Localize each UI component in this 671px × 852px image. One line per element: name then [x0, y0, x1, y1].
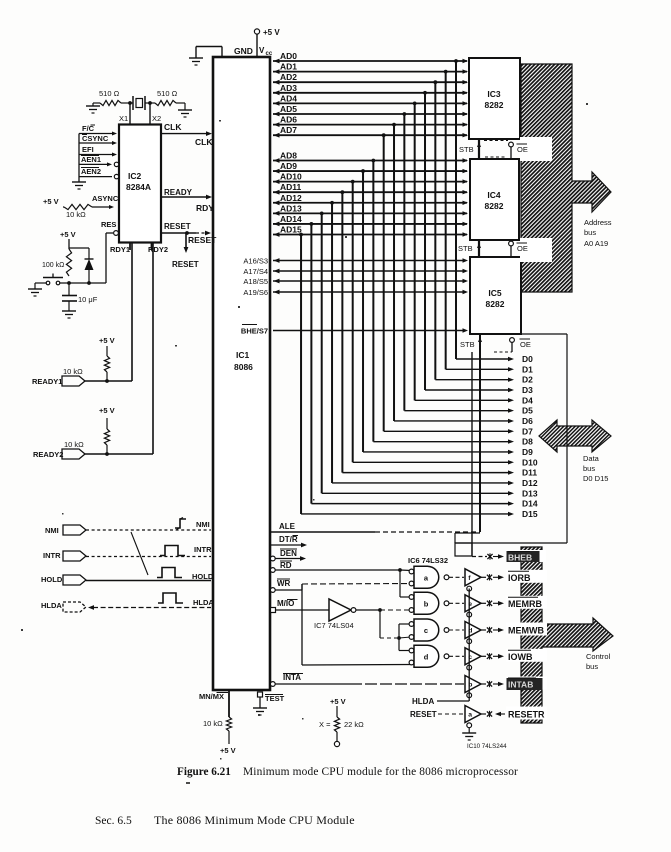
svg-text:AD11: AD11 — [280, 182, 302, 192]
waveform NMI edge — [175, 519, 186, 528]
wire D14 horizontal — [311, 503, 508, 505]
wire D12 horizontal — [332, 482, 508, 484]
wire reset junction — [58, 282, 106, 284]
ground IC2 input bus — [72, 181, 86, 183]
node AD12 junction — [330, 201, 334, 205]
svg-text:BHEB: BHEB — [508, 553, 532, 563]
wire button to ground — [35, 282, 46, 284]
svg-text:Figure 6.21: Figure 6.21 — [177, 766, 231, 778]
waveform HOLD pulse — [157, 568, 182, 578]
wire A17/S4 — [273, 270, 464, 272]
wire AD7 horizontal — [273, 134, 467, 136]
label INTAB — [506, 677, 547, 690]
label MEMWB — [506, 623, 547, 636]
pin F/C input — [79, 133, 114, 135]
svg-text:IC6 74LS32: IC6 74LS32 — [408, 556, 448, 565]
svg-text:STB: STB — [460, 340, 475, 349]
svg-text:IC2: IC2 — [128, 171, 142, 181]
svg-text:bus: bus — [583, 464, 595, 473]
svg-text:RDY1: RDY1 — [110, 245, 130, 254]
wire AD15 horizontal — [273, 233, 467, 235]
latch IC5 8282 — [470, 257, 521, 334]
svg-text:D14: D14 — [522, 499, 538, 509]
ground GND pin — [189, 57, 203, 59]
node X1 junction — [128, 101, 132, 105]
svg-text:IC10 74LS244: IC10 74LS244 — [467, 743, 507, 750]
pin CSYNC input — [79, 142, 114, 144]
svg-text:D9: D9 — [522, 447, 533, 457]
svg-text:bus: bus — [586, 662, 598, 671]
pin RD wire — [270, 568, 275, 573]
or-gate a — [409, 569, 414, 574]
svg-text:HLDA: HLDA — [193, 598, 214, 607]
cpu IC1 8086 body — [213, 57, 270, 690]
node AD10 junction — [351, 180, 355, 184]
wire AD1 horizontal — [273, 71, 467, 73]
buffer c 74LS244 — [465, 648, 481, 665]
svg-text:DEN: DEN — [280, 549, 297, 558]
wire buffer a enable to ground — [468, 728, 470, 733]
svg-text:OE: OE — [517, 244, 528, 253]
pin OE IC3 bubble — [509, 142, 514, 147]
wire AD10 vertical drop to D10 — [352, 182, 354, 463]
svg-text:10 kΩ: 10 kΩ — [203, 719, 223, 728]
svg-text:X2: X2 — [152, 114, 161, 123]
svg-text:D12: D12 — [522, 478, 538, 488]
wire dashes gap1 — [484, 140, 508, 142]
node AD14 junction — [309, 222, 313, 226]
wire X1 drop — [129, 103, 131, 124]
or-gate b — [409, 595, 414, 600]
capacitor 10uF — [62, 295, 77, 297]
node AD11 junction — [340, 190, 344, 194]
svg-text:A18/S5: A18/S5 — [243, 277, 268, 286]
svg-text:+5 V: +5 V — [263, 28, 280, 37]
svg-text:10 kΩ: 10 kΩ — [64, 440, 84, 449]
svg-text:AD13: AD13 — [280, 203, 302, 213]
svg-text:RESET: RESET — [188, 235, 217, 245]
svg-text:RESET: RESET — [172, 260, 199, 269]
crystal X1-X2 — [132, 96, 134, 110]
inverter IC7 74LS04 — [329, 599, 351, 621]
svg-text:D4: D4 — [522, 395, 533, 405]
buffer a 74LS244 — [465, 706, 481, 723]
svg-text:D2: D2 — [522, 375, 533, 385]
wire RESET branch down — [185, 233, 187, 248]
pin TEST — [258, 692, 263, 697]
svg-text:RDY2: RDY2 — [148, 245, 168, 254]
wire AD3 vertical drop to D3 — [424, 93, 426, 390]
svg-text:DT/R: DT/R — [279, 535, 298, 544]
label IOWB — [506, 649, 547, 662]
wire AD14 horizontal — [273, 223, 467, 225]
svg-text:10 kΩ: 10 kΩ — [66, 210, 86, 219]
wire AD9 vertical drop to D9 — [362, 171, 364, 452]
svg-text:AEN2: AEN2 — [81, 167, 101, 176]
label IORB — [506, 570, 547, 583]
ground capacitor — [62, 310, 76, 312]
wire D2 horizontal — [435, 379, 508, 381]
svg-text:AD7: AD7 — [280, 125, 297, 135]
svg-text:D11: D11 — [522, 468, 537, 478]
svg-text:+5 V: +5 V — [99, 336, 115, 345]
or-gate d — [409, 648, 414, 653]
svg-text:RESET: RESET — [164, 222, 191, 231]
svg-text:RES: RES — [101, 220, 116, 229]
svg-text:The 8086 Minimum Mode CPU Modu: The 8086 Minimum Mode CPU Module — [154, 813, 355, 827]
svg-text:10 kΩ: 10 kΩ — [63, 367, 83, 376]
terminal X open circle — [334, 741, 339, 746]
wire AD4 horizontal — [273, 102, 467, 104]
wire X2 drop — [149, 103, 151, 124]
wire to crystal left — [121, 102, 133, 104]
wire INTR — [86, 556, 211, 558]
wire to gate c input — [398, 624, 400, 638]
svg-text:NMI: NMI — [196, 520, 210, 529]
svg-text:AD3: AD3 — [280, 83, 297, 93]
pin enable bubble buffer b — [467, 693, 472, 698]
svg-text:IC4: IC4 — [487, 190, 501, 200]
svg-text:+5 V: +5 V — [330, 697, 346, 706]
wire A16/S3 — [273, 260, 464, 262]
svg-text:A0 A19: A0 A19 — [584, 239, 608, 248]
wire AD14 vertical drop to D14 — [310, 224, 312, 504]
svg-text:STB: STB — [458, 244, 473, 253]
wire READY1 — [85, 380, 132, 382]
svg-text:AD10: AD10 — [280, 172, 302, 182]
node RESET branch — [185, 231, 189, 235]
svg-text:RESET: RESET — [410, 710, 437, 719]
node AD3 junction — [423, 91, 427, 95]
wire STB gap1 — [478, 140, 480, 159]
wire AD2 horizontal — [273, 81, 467, 83]
wire AD5 horizontal — [273, 113, 467, 115]
svg-text:A17/S4: A17/S4 — [243, 267, 268, 276]
svg-text:AD4: AD4 — [280, 93, 297, 103]
wire enable chain vertical — [468, 589, 470, 702]
pin OE IC5 bubble — [510, 338, 515, 343]
wire D9 horizontal — [363, 451, 508, 453]
pin INTA wire — [270, 682, 275, 687]
wire RES up to IC2 — [105, 233, 107, 283]
wire resistor junction down — [68, 283, 70, 295]
ground TEST — [253, 707, 267, 709]
svg-text:Sec. 6.5: Sec. 6.5 — [95, 815, 132, 827]
control bus hatched band with arrow — [521, 547, 613, 723]
wire A19/S6 — [273, 291, 464, 293]
svg-text:IORB: IORB — [508, 573, 531, 583]
svg-text:+5 V: +5 V — [43, 197, 59, 206]
svg-text:10 μF: 10 μF — [78, 295, 98, 304]
wire inverter output — [356, 609, 380, 611]
wire AD7 vertical drop to D7 — [383, 135, 385, 431]
wire D6 horizontal — [394, 420, 508, 422]
pin WR wire — [270, 588, 275, 593]
latch IC3 8282 — [469, 58, 520, 139]
wire AD10 horizontal — [273, 181, 467, 183]
wire A18/S5 — [273, 280, 464, 282]
wire OE IC5 stub — [494, 351, 512, 353]
svg-text:a: a — [468, 712, 472, 719]
pin enable bubble buffer c — [467, 665, 472, 670]
svg-text:AD5: AD5 — [280, 104, 297, 114]
svg-text:D10: D10 — [522, 457, 538, 467]
resistor 10k READY2 pullup — [106, 418, 108, 429]
wire AD12 vertical drop to D12 — [331, 203, 333, 483]
svg-text:READY1: READY1 — [32, 377, 62, 386]
wire AD8 horizontal — [273, 160, 467, 162]
svg-text:cc: cc — [266, 51, 273, 57]
pin enable bubble buffer d — [467, 639, 472, 644]
ground 510 left — [93, 102, 100, 104]
or-gate c — [409, 622, 414, 627]
wire D8 horizontal — [373, 441, 508, 443]
pin enable bubble buffer a — [467, 723, 472, 728]
wire AD1 vertical drop to D1 — [445, 72, 447, 370]
wire AD13 horizontal — [273, 212, 467, 214]
svg-text:8282: 8282 — [485, 100, 504, 110]
ground 510 right — [176, 102, 185, 104]
svg-text:M/IO: M/IO — [277, 599, 294, 608]
wire ground bus of IC2 inputs — [78, 134, 80, 183]
node AD2 junction — [433, 80, 437, 84]
svg-text:bus: bus — [584, 228, 596, 237]
pin AEN1 input — [79, 163, 110, 165]
pin M/IO wire — [271, 608, 276, 613]
svg-text:INTAB: INTAB — [508, 680, 533, 690]
svg-text:TEST: TEST — [265, 694, 285, 703]
svg-text:STB: STB — [459, 145, 474, 154]
wire WR loop — [301, 584, 303, 665]
svg-text:+5 V: +5 V — [60, 230, 76, 239]
svg-text:IC7 74LS04: IC7 74LS04 — [314, 621, 354, 630]
node AD0 junction — [454, 59, 458, 63]
wire AD3 horizontal — [273, 92, 467, 94]
wire D1 horizontal — [446, 368, 508, 370]
wire RD to gate b — [399, 570, 401, 597]
svg-text:CLK: CLK — [195, 137, 213, 147]
svg-text:READY: READY — [164, 188, 193, 197]
address bus hatched region with arrow — [521, 64, 611, 292]
svg-text:+5 V: +5 V — [220, 746, 236, 755]
buffer e 74LS244 — [465, 595, 481, 612]
svg-text:d: d — [424, 652, 429, 661]
wire CLK from IC2 to IC1 — [161, 133, 208, 135]
wire output IOWB — [481, 655, 486, 657]
buffer b 74LS244 — [465, 676, 481, 693]
pin RDY2 — [151, 243, 153, 251]
svg-text:IC1: IC1 — [236, 350, 250, 360]
node X2 junction — [148, 101, 152, 105]
ground buffer enable — [462, 732, 476, 734]
svg-text:AD0: AD0 — [280, 51, 297, 61]
node AD6 junction — [392, 123, 396, 127]
wire D13 horizontal — [322, 492, 508, 494]
pin RDY1 — [129, 243, 131, 251]
svg-text:AEN1: AEN1 — [81, 155, 101, 164]
svg-text:D3: D3 — [522, 385, 533, 395]
node AD1 junction — [444, 70, 448, 74]
wire D10 horizontal — [353, 461, 508, 463]
svg-text:HOLD: HOLD — [192, 572, 214, 581]
node AD15 junction — [299, 233, 303, 237]
svg-text:NMI: NMI — [45, 526, 59, 535]
svg-text:D1: D1 — [522, 364, 533, 374]
svg-text:AD9: AD9 — [280, 161, 297, 171]
svg-text:IOWB: IOWB — [508, 652, 533, 662]
node AD13 junction — [320, 211, 324, 215]
pin enable bubble buffer f — [467, 586, 472, 591]
wire AD0 vertical drop to D0 — [455, 61, 457, 359]
wire BHE/S7 — [273, 330, 464, 332]
svg-text:b: b — [424, 599, 429, 608]
svg-text:Minimum mode CPU module for th: Minimum mode CPU module for the 8086 mic… — [243, 766, 518, 778]
resistor 100k — [66, 249, 71, 276]
pushbutton reset — [46, 281, 50, 285]
svg-text:X =: X = — [319, 720, 331, 729]
svg-text:IC3: IC3 — [487, 89, 501, 99]
wire AD0 horizontal — [273, 60, 467, 62]
svg-text:D6: D6 — [522, 416, 533, 426]
svg-text:ALE: ALE — [279, 522, 296, 531]
svg-text:RESETR: RESETR — [508, 710, 545, 720]
svg-text:AD12: AD12 — [280, 193, 302, 203]
wire gate d to buffer c — [449, 655, 464, 657]
svg-text:AD15: AD15 — [280, 224, 302, 234]
wire gate c to buffer d — [449, 629, 464, 631]
wire AD6 horizontal — [273, 124, 467, 126]
wire RESET from IC2 to IC1 — [161, 232, 196, 234]
wire AD6 vertical drop to D6 — [393, 125, 395, 421]
svg-text:INTR: INTR — [194, 545, 212, 554]
scan noise specks — [21, 103, 588, 760]
svg-text:D13: D13 — [522, 488, 538, 498]
wire output RESETR — [481, 713, 486, 715]
svg-text:c: c — [424, 626, 428, 635]
svg-text:X1: X1 — [119, 114, 128, 123]
svg-text:22 kΩ: 22 kΩ — [344, 720, 364, 729]
svg-text:GND: GND — [234, 46, 253, 56]
svg-text:OE: OE — [520, 340, 531, 349]
wire AD8 vertical drop to D8 — [372, 161, 374, 442]
svg-text:510 Ω: 510 Ω — [99, 89, 120, 98]
wire D15 horizontal — [301, 513, 508, 515]
label RESETR — [506, 707, 547, 720]
svg-text:D7: D7 — [522, 426, 533, 436]
svg-text:510 Ω: 510 Ω — [157, 89, 178, 98]
svg-text:8282: 8282 — [485, 201, 504, 211]
wire D0 horizontal — [456, 358, 508, 360]
svg-text:ASYNC: ASYNC — [92, 194, 119, 203]
resistor 10k ASYNC — [64, 204, 92, 209]
wire M inverted down — [378, 608, 382, 612]
waveform HLDA pulse — [158, 593, 183, 603]
svg-text:MN/MX: MN/MX — [199, 692, 224, 701]
wire output INTAB — [481, 683, 486, 685]
svg-text:Data: Data — [583, 454, 600, 463]
wire to gate d input — [398, 638, 400, 651]
svg-text:D0: D0 — [522, 354, 533, 364]
svg-text:OE: OE — [517, 145, 528, 154]
node AD7 junction — [382, 133, 386, 137]
svg-text:V: V — [259, 46, 265, 55]
data bus boundary box — [521, 333, 567, 335]
label MEMRB — [506, 596, 547, 609]
svg-text:Address: Address — [584, 218, 612, 227]
wire output IORB — [481, 576, 486, 578]
svg-text:WR: WR — [277, 579, 291, 588]
wire READY2 — [85, 453, 153, 455]
wire READY to RDY — [161, 196, 208, 198]
wire D5 horizontal — [404, 410, 508, 412]
resistor X 22k — [336, 706, 338, 717]
power +5V Vcc — [256, 34, 258, 57]
svg-text:AD1: AD1 — [280, 62, 297, 72]
waveform INTR pulse — [160, 546, 185, 556]
svg-text:CSYNC: CSYNC — [82, 134, 109, 143]
white box over hatch gap1 — [520, 137, 552, 161]
resistor 10k MN/MX — [226, 717, 231, 731]
buffer f 74LS244 — [465, 569, 481, 586]
wire D7 horizontal — [384, 430, 508, 432]
data bus hatched double arrow — [539, 420, 611, 452]
svg-text:HLDA: HLDA — [412, 697, 434, 706]
wire RDY2 vertical — [152, 243, 154, 455]
white box over hatch gap2 — [520, 238, 552, 262]
svg-text:INTA: INTA — [283, 673, 301, 682]
wire AD5 vertical drop to D5 — [403, 114, 405, 411]
wire STB gap2 — [478, 241, 480, 257]
pin enable bubble buffer e — [467, 612, 472, 617]
wire AD2 vertical drop to D2 — [434, 82, 436, 379]
pin DEN wire — [270, 556, 275, 561]
svg-text:Control: Control — [586, 652, 611, 661]
wire gate b to buffer e — [449, 602, 464, 604]
svg-text:8284A: 8284A — [126, 182, 151, 192]
wire AD4 vertical drop to D4 — [414, 103, 416, 400]
wire AD11 horizontal — [273, 191, 467, 193]
resistor 10k READY1 pullup — [106, 346, 108, 356]
node AD5 junction — [402, 112, 406, 116]
svg-text:AD8: AD8 — [280, 151, 297, 161]
svg-text:RDY: RDY — [196, 203, 214, 213]
latch IC4 8282 — [470, 159, 519, 240]
svg-text:MEMWB: MEMWB — [508, 626, 544, 636]
svg-text:HOLD: HOLD — [41, 575, 63, 584]
wire AD15 vertical drop to D15 — [300, 234, 302, 513]
clock generator IC2 8284A body — [119, 125, 161, 243]
svg-text:8086: 8086 — [234, 362, 253, 372]
svg-text:HLDA: HLDA — [41, 601, 62, 610]
wire AD12 horizontal — [273, 202, 467, 204]
wire D11 horizontal — [342, 472, 508, 474]
wire output MEMWB — [481, 629, 486, 631]
svg-text:D5: D5 — [522, 406, 533, 416]
wire HOLD — [86, 580, 211, 582]
svg-text:A19/S6: A19/S6 — [243, 288, 268, 297]
svg-text:RD: RD — [280, 561, 292, 570]
wire crystal right — [145, 102, 155, 104]
ground pushbutton — [28, 288, 42, 290]
wire HLDA — [93, 607, 211, 609]
svg-text:AD2: AD2 — [280, 72, 297, 82]
svg-text:BHE/S7: BHE/S7 — [241, 327, 268, 336]
svg-text:A16/S3: A16/S3 — [243, 257, 268, 266]
wire BHEB vertical from STB area — [471, 352, 473, 556]
svg-text:+5 V: +5 V — [99, 406, 115, 415]
label BHEB — [506, 550, 546, 562]
svg-text:READY2: READY2 — [33, 450, 63, 459]
